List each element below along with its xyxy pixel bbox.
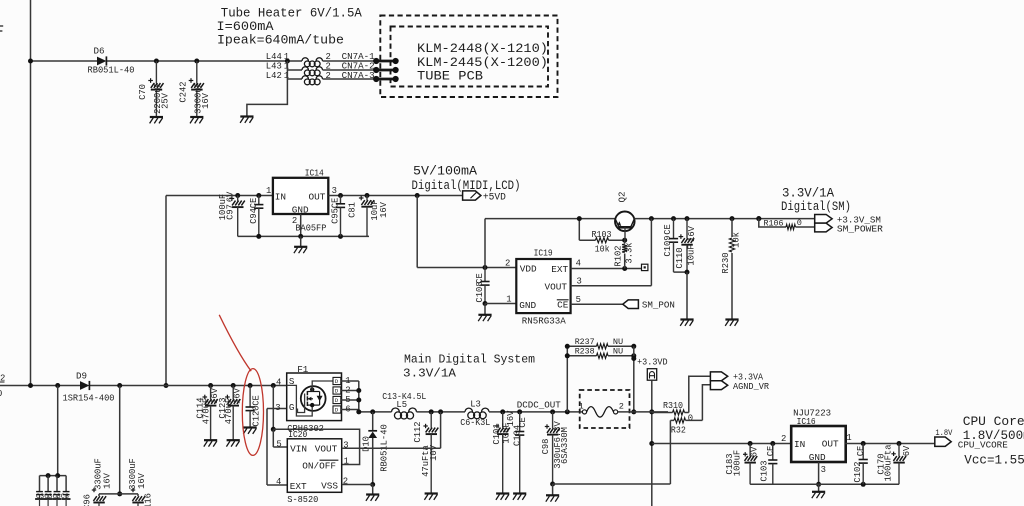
resistor R310 0ohm — [652, 401, 693, 424]
svg-text:1: 1 — [284, 52, 289, 62]
inductor L5 C13-K4.5L — [382, 391, 426, 419]
wire R238 right vertical to rail — [631, 346, 636, 414]
capacitor bank C35-C38 (clipped) — [35, 476, 70, 506]
wire tube return to ground — [247, 79, 288, 117]
wire IC20 VSS to diode — [342, 484, 373, 486]
svg-text:OUT: OUT — [309, 192, 326, 203]
resistor R103 10k — [577, 216, 625, 254]
resistor R102 3.3k — [614, 238, 635, 269]
capacitor C112 47uFta 10V — [413, 412, 439, 494]
svg-text:C96: C96 — [83, 494, 93, 506]
svg-text:GND: GND — [292, 205, 309, 216]
capacitor C170 100uFta 6V — [876, 444, 912, 485]
text KLM-2448 / TUBE PCB — [417, 41, 548, 84]
svg-text:OUT: OUT — [822, 439, 839, 450]
wire IC19 EXT row — [571, 266, 642, 271]
wire IC20 VOUT feedback to rail — [342, 412, 441, 448]
svg-text:2: 2 — [781, 434, 786, 444]
transistor F1 CPH6302 p-MOSFET — [275, 364, 341, 434]
flag SM_PON — [623, 300, 675, 311]
svg-text:D6: D6 — [94, 46, 105, 57]
jumper dashed box — [580, 390, 630, 428]
resistor R237 NU — [565, 337, 637, 412]
svg-text:1: 1 — [345, 376, 350, 386]
svg-text:C112: C112 — [413, 421, 423, 442]
capacitor C110 10uF 16V — [675, 219, 697, 320]
wire L44 to connector — [323, 60, 377, 62]
via symbol A-box +3.3VD — [647, 369, 656, 381]
svg-text:VOUT: VOUT — [315, 443, 338, 454]
svg-text:EXT: EXT — [551, 264, 568, 275]
svg-text:3: 3 — [275, 403, 280, 413]
inductor L42 — [266, 71, 376, 85]
svg-text:0: 0 — [797, 218, 802, 228]
text DCDC_OUT — [517, 399, 561, 410]
svg-text:IC16: IC16 — [797, 416, 816, 427]
svg-text:R238: R238 — [575, 346, 595, 356]
svg-text:Digital(SM): Digital(SM) — [781, 200, 851, 214]
svg-text:C109: C109 — [663, 235, 673, 256]
svg-text:10k: 10k — [731, 232, 741, 248]
F1 drain pin boxes D1 D2 D5 D6 — [333, 376, 359, 415]
wire S to VIN vertical — [271, 386, 288, 448]
svg-text:2: 2 — [505, 259, 510, 269]
text 5V/100mA Digital(MIDI,LCD) — [412, 165, 521, 193]
svg-text:16V: 16V — [233, 387, 243, 404]
resistor R238 NU — [565, 346, 637, 358]
svg-text:2: 2 — [326, 71, 331, 81]
wire to bulk caps C96/C116 — [99, 386, 138, 497]
svg-text:S-8520: S-8520 — [287, 494, 318, 505]
transistor Q2 PNP — [615, 191, 635, 240]
ground C70 — [150, 117, 163, 123]
svg-text:16V: 16V — [137, 472, 147, 489]
svg-text:4: 4 — [276, 477, 281, 487]
svg-text:C70: C70 — [138, 84, 148, 100]
svg-text:VOUT: VOUT — [545, 282, 568, 293]
svg-text:SM_POWER: SM_POWER — [837, 223, 883, 234]
wire IC16 output ground bus — [750, 482, 899, 487]
svg-text:25V: 25V — [160, 92, 170, 109]
svg-text:VDD: VDD — [520, 263, 537, 274]
svg-text:3.3V/1A: 3.3V/1A — [403, 367, 457, 381]
capacitor C183 100uF 6V — [725, 444, 760, 485]
net CN7A-1 label — [342, 52, 375, 62]
svg-text:16V: 16V — [201, 92, 211, 109]
wire IC16 OUT rail — [845, 441, 935, 446]
wire rail L3 to dashed box — [489, 409, 580, 414]
svg-text:D10: D10 — [361, 436, 371, 452]
annotation red line — [219, 315, 251, 371]
svg-text:Vcc=1.55-1.: Vcc=1.55-1. — [964, 453, 1024, 467]
wire IC19 CE to flag — [571, 303, 623, 305]
ground C101 — [496, 494, 509, 500]
svg-text:CE: CE — [856, 446, 866, 457]
connector CN7A pin pair 2 — [373, 67, 399, 73]
net tie square on EXT — [642, 264, 648, 270]
ground C108 — [478, 304, 491, 322]
svg-text:C95: C95 — [330, 208, 340, 224]
svg-text:100uF: 100uF — [733, 450, 743, 476]
wire tube heater rail — [28, 59, 302, 64]
svg-text:G: G — [289, 402, 295, 413]
wire G to EXT vertical — [267, 409, 287, 486]
capacitor C95 CE — [330, 196, 345, 237]
svg-text:6V: 6V — [226, 191, 236, 202]
connector CN7A pin pair 1 — [373, 58, 399, 64]
svg-text:Ipeak=640mA/tube: Ipeak=640mA/tube — [217, 34, 344, 48]
svg-text:D: D — [335, 407, 339, 414]
ground VSS/D10 — [366, 485, 379, 501]
text Main Digital System 3.3V/1A — [403, 352, 535, 380]
svg-text:D: D — [335, 397, 339, 404]
op-amp-box IC19 RN5RG33A — [516, 248, 582, 327]
svg-text:IN: IN — [275, 192, 286, 203]
ground C110 — [680, 320, 693, 326]
wire +3.3VD distribution vertical — [649, 380, 654, 506]
ground C123 — [226, 440, 239, 446]
svg-text:1: 1 — [506, 295, 511, 305]
wire R32 to AGND_VR flag — [702, 385, 710, 421]
ground R230 — [725, 320, 738, 326]
capacitor C104 CE — [512, 412, 527, 494]
svg-text:C120: C120 — [251, 405, 261, 426]
svg-text:2: 2 — [619, 402, 624, 412]
svg-text:0: 0 — [688, 413, 693, 423]
svg-text:16V: 16V — [687, 225, 697, 242]
svg-text:KLM-2448(X-1210): KLM-2448(X-1210) — [417, 41, 548, 56]
svg-text:VSS: VSS — [321, 480, 338, 491]
wire bottom input rail — [0, 383, 287, 388]
ground C98 — [546, 484, 559, 502]
wire rail L5 to L3 — [417, 409, 466, 414]
svg-text:R103: R103 — [592, 230, 612, 240]
svg-text:5: 5 — [276, 439, 281, 449]
svg-text:C81: C81 — [348, 202, 358, 218]
svg-text:1: 1 — [344, 456, 349, 466]
wire C108 to IC19 GND — [485, 295, 516, 305]
svg-text:100uFta: 100uFta — [883, 445, 893, 482]
wire +5V down to IC19 VDD — [417, 196, 516, 271]
svg-text:4: 4 — [276, 378, 281, 388]
flag +3.3V_SM — [815, 214, 882, 225]
svg-text:C94: C94 — [249, 208, 259, 224]
wire R310 to +3.3VA flag — [689, 376, 711, 412]
svg-text:1: 1 — [266, 186, 271, 196]
svg-text:CE: CE — [766, 446, 776, 457]
ground tube return — [240, 117, 253, 123]
svg-text:DCDC_OUT: DCDC_OUT — [517, 399, 561, 410]
svg-text:IN: IN — [794, 439, 805, 450]
op-amp-box IC16 NJU7223 — [791, 407, 852, 475]
svg-text:3.3V/1A: 3.3V/1A — [782, 187, 834, 201]
net label 1.8V — [935, 429, 952, 438]
flag CPU_VCORE — [935, 437, 1008, 451]
svg-text:L3: L3 — [470, 399, 481, 409]
capacitor C114 470uF 16V — [195, 386, 220, 441]
wire main left vertical bus — [30, 0, 32, 386]
capacitor C102 CE — [853, 444, 868, 485]
wire IC19 VOUT to rail — [571, 219, 652, 286]
text tube heater title — [217, 7, 363, 48]
capacitor C70 2200uF 25V — [138, 61, 171, 117]
ground C114 — [204, 440, 217, 446]
svg-text:C98: C98 — [541, 439, 551, 455]
svg-text:R102: R102 — [614, 245, 624, 266]
flag +5VD — [463, 191, 506, 203]
net label 0 at left edge — [0, 389, 2, 399]
svg-text:16V: 16V — [103, 472, 113, 489]
svg-text:C102: C102 — [853, 461, 863, 482]
svg-text:C103: C103 — [759, 460, 769, 481]
svg-text:R310: R310 — [663, 401, 683, 411]
wire rail to R310 node — [634, 411, 668, 413]
svg-text:NU: NU — [613, 337, 623, 347]
tube PCB inner dashed box — [391, 27, 549, 87]
svg-text:5V/100mA: 5V/100mA — [413, 165, 478, 179]
capacitor C101 10uF 16V — [492, 410, 516, 494]
svg-text:3: 3 — [332, 186, 337, 196]
svg-text:16V: 16V — [506, 410, 516, 427]
svg-text:4: 4 — [576, 259, 581, 269]
svg-text:CE: CE — [475, 273, 485, 284]
svg-text:C3C3C3C3: C3C3C3C3 — [36, 493, 69, 500]
resistor R230 10k — [721, 219, 742, 320]
svg-text:3: 3 — [821, 465, 826, 475]
svg-text:D: D — [335, 378, 339, 385]
flag +3.3VA — [710, 372, 763, 383]
svg-text:C97: C97 — [226, 204, 236, 220]
svg-text:GND: GND — [809, 452, 826, 463]
svg-text:CN7A-1: CN7A-1 — [342, 52, 375, 62]
annotation red ellipse around C120 — [242, 369, 263, 456]
capacitor C109 CE — [663, 219, 687, 273]
capacitor C103 CE — [759, 444, 777, 485]
svg-text:IC20: IC20 — [288, 429, 307, 440]
svg-text:TUBE PCB: TUBE PCB — [417, 69, 483, 84]
wire F1 drains tie — [341, 381, 362, 412]
resistor R32 — [670, 418, 702, 436]
svg-text:I=600mA: I=600mA — [217, 20, 275, 34]
svg-text:0: 0 — [0, 389, 2, 399]
inductor L44 — [266, 52, 331, 67]
ground C120 — [243, 428, 256, 434]
svg-text:GND: GND — [519, 300, 536, 311]
clipped glyph fragments at top-left edge — [0, 26, 3, 31]
svg-text:CE: CE — [518, 417, 528, 428]
wire R32 to analog ground — [553, 420, 671, 484]
flag SM_POWER — [815, 223, 884, 234]
svg-text:C101: C101 — [492, 423, 502, 444]
svg-text:IC14: IC14 — [305, 168, 324, 179]
svg-text:16V: 16V — [379, 201, 389, 218]
capacitor C108 CE — [475, 268, 490, 307]
svg-text:C110: C110 — [675, 247, 685, 268]
svg-text:ON/OFF: ON/OFF — [302, 460, 336, 471]
capacitor C96 3300uF 16V (clipped) — [83, 458, 113, 506]
svg-text:D9: D9 — [76, 371, 87, 382]
inductor L3 C6-K3L — [460, 399, 490, 428]
svg-text:1: 1 — [846, 433, 851, 443]
svg-text:6SA330M: 6SA330M — [560, 427, 570, 464]
wire IC14 ground bus — [238, 214, 369, 239]
svg-text:R230: R230 — [721, 252, 731, 273]
op-amp-box IC20 S-8520 controller — [276, 429, 349, 505]
svg-text:Tube Heater 6V/1.5A: Tube Heater 6V/1.5A — [221, 7, 362, 21]
svg-text:AGND_VR: AGND_VR — [733, 381, 769, 392]
svg-text:L44: L44 — [266, 52, 282, 62]
capacitor C98 330uF 6.3V — [541, 412, 570, 487]
svg-text:6V: 6V — [902, 445, 912, 456]
ground C104 — [513, 494, 526, 500]
wire VIN to ON/OFF enable loop — [273, 429, 359, 464]
wire to small cap bank — [40, 386, 67, 479]
capacitor C123 470uF 16V — [218, 386, 243, 441]
capacitor C94 CE — [249, 196, 263, 237]
svg-text:+3.3VD: +3.3VD — [637, 356, 668, 367]
net label 2 at left edge — [0, 374, 5, 384]
svg-text:116: 116 — [143, 493, 153, 506]
wire buck switch output rail — [356, 409, 391, 414]
capacitor C116 3300uF 16V (clipped) — [128, 458, 154, 506]
ground C242 — [190, 117, 203, 123]
svg-text:CE: CE — [330, 198, 340, 209]
capacitor C81 10uF 16V — [348, 196, 389, 237]
svg-text:CPU Core: CPU Core — [963, 414, 1024, 429]
svg-text:VIN: VIN — [290, 443, 307, 454]
net +3.3VD label — [637, 356, 668, 367]
svg-text:R32: R32 — [671, 426, 686, 436]
svg-text:RN5RG33A: RN5RG33A — [522, 316, 566, 327]
svg-text:NU: NU — [613, 346, 623, 356]
svg-text:L42: L42 — [266, 71, 282, 81]
svg-text:10V: 10V — [429, 444, 439, 461]
svg-text:Main Digital System: Main Digital System — [404, 352, 535, 366]
svg-text:R106: R106 — [764, 218, 784, 228]
wire rail Q2 collector to output — [634, 216, 814, 221]
wire IC16 GND stub — [816, 462, 821, 487]
svg-text:R237: R237 — [575, 337, 595, 347]
svg-text:RB051L-40: RB051L-40 — [88, 66, 135, 76]
svg-text:Q2: Q2 — [617, 191, 628, 202]
jumper wavy link pins 1-2 — [579, 402, 634, 418]
text CPU Core titles — [963, 414, 1024, 468]
wire L43/L42 feed vertical — [286, 61, 288, 79]
resistor R106 0ohm — [756, 216, 814, 230]
svg-text:C6-K3L: C6-K3L — [460, 417, 490, 428]
svg-text:+5VD: +5VD — [483, 192, 506, 203]
capacitor C120 CE — [246, 386, 262, 428]
svg-text:CE: CE — [663, 224, 673, 235]
svg-text:1: 1 — [284, 71, 289, 81]
svg-text:CN7A-3: CN7A-3 — [342, 71, 375, 81]
diode D10 RB051L-40 catch — [361, 412, 389, 487]
tube PCB outer dashed box — [380, 16, 557, 98]
svg-text:SM_PON: SM_PON — [642, 300, 675, 311]
wire +3.3VD to IC16 IN — [652, 434, 791, 446]
ground IC16 — [812, 484, 825, 498]
svg-text:6V: 6V — [750, 446, 760, 457]
ground C112 — [424, 494, 437, 500]
connector CN7A pin pair 3 — [373, 76, 399, 82]
text 3.3V/1A Digital(SM) — [781, 187, 851, 214]
svg-text:3.3k: 3.3k — [625, 242, 635, 263]
net CN7A-3 label — [342, 71, 375, 81]
svg-text:10k: 10k — [595, 245, 610, 255]
svg-text:CE: CE — [251, 395, 261, 406]
svg-text:D: D — [335, 388, 339, 395]
capacitor C97 100uF 6V — [218, 191, 245, 236]
wire feed to IC14 input — [164, 193, 273, 388]
diode D6 — [88, 46, 135, 76]
inductor L43 — [266, 62, 376, 76]
svg-text:1.8V/500mA: 1.8V/500mA — [963, 429, 1024, 443]
svg-text:1: 1 — [579, 402, 584, 412]
svg-text:EXT: EXT — [290, 481, 307, 492]
svg-text:1SR154-400: 1SR154-400 — [63, 393, 115, 403]
svg-text:CE: CE — [249, 198, 259, 209]
wire riser to Q2 emitter rail — [485, 219, 615, 268]
capacitor C242 3300uF 16V — [178, 61, 211, 117]
svg-text:C242: C242 — [178, 81, 188, 102]
wire IC14 output rail — [328, 193, 462, 198]
svg-text:CE: CE — [557, 300, 569, 311]
diode D9 1SR154-400 — [63, 371, 115, 404]
flag AGND_VR — [710, 381, 769, 392]
svg-text:IC19: IC19 — [534, 248, 553, 259]
svg-text:10uF: 10uF — [686, 244, 696, 265]
net CN7A-2 label — [342, 62, 375, 72]
ground IC14 pin2 — [294, 236, 307, 253]
svg-text:F1: F1 — [297, 364, 309, 375]
op-amp-box IC14 BA05FP regulator — [266, 168, 337, 234]
